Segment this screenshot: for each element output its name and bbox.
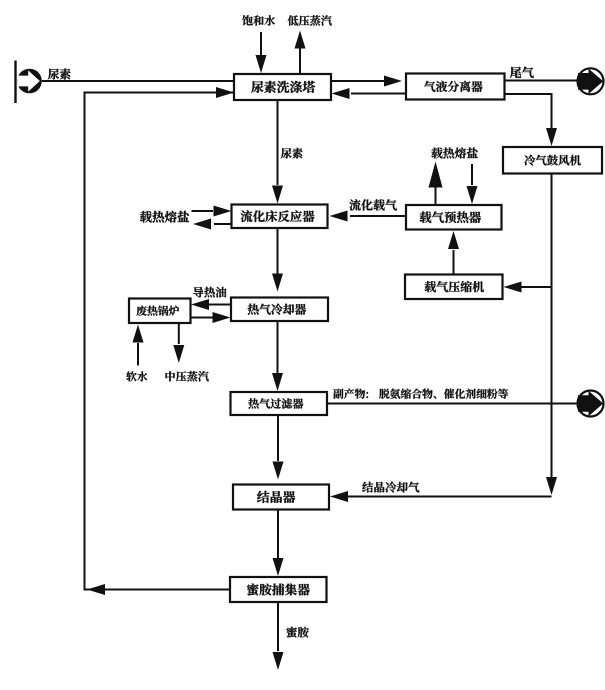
flow terminal circle (tail gas out)	[578, 68, 604, 94]
arrowhead: recycle at collector outlet corner	[87, 584, 105, 595]
arrowhead: soft water up into boiler	[133, 325, 144, 343]
arrowhead: into preheater from compressor	[448, 231, 459, 249]
label: 饱和水 (saturated water)	[242, 15, 275, 25]
arrowhead: urea into reactor	[272, 186, 283, 204]
label: 载热熔盐 (molten salt, reactor)	[140, 211, 189, 223]
wire: molten salt stub out of reactor	[214, 223, 232, 225]
wire: cooler to hot gas filter	[277, 321, 279, 373]
arrowhead: oil into cooler	[213, 312, 231, 323]
label: 软水 (soft water)	[126, 371, 147, 381]
arrowhead: melamine product down	[273, 652, 284, 670]
label: 流化载气 (fluidizing carrier gas)	[349, 199, 396, 210]
arrowhead: fluidizing gas into reactor	[330, 211, 348, 222]
wire: soft water into boiler	[137, 343, 139, 366]
label: 载热熔盐 (molten salt, preheater)	[431, 147, 477, 158]
source terminal bar (urea feed)	[14, 61, 16, 104]
box: 尿素洗涤塔 (urea scrubber)	[234, 74, 331, 100]
arrowhead: molten salt into reactor	[214, 206, 232, 217]
wire: melamine product out	[277, 602, 279, 651]
wire: branch to compressor	[521, 286, 552, 288]
arrowhead: molten salt down into preheater	[467, 186, 478, 204]
label: 低压蒸汽 (LP steam)	[288, 15, 332, 25]
box: 载气预热器 (carrier gas preheater)	[406, 205, 502, 230]
arrowhead: into hot gas filter	[272, 373, 283, 391]
wire: saturated water into scrubber	[260, 32, 262, 56]
arrowhead: riser down to crystallizer line	[546, 477, 557, 495]
wire: crystallizing cooling gas line	[348, 496, 552, 498]
arrowhead: saturated water down	[256, 55, 267, 73]
label: 副产物: 脱氨缩合物、催化剂细粉等 (by-products)	[333, 389, 508, 399]
wire: fluidizing gas from preheater to reactor	[350, 215, 406, 217]
wire: urea feed from source to scrubber	[42, 80, 234, 82]
wire: MP steam out of boiler	[178, 323, 180, 344]
arrowhead: recycle into scrubber	[216, 87, 234, 98]
label: 导热油 (heat transfer oil)	[193, 287, 226, 298]
box: 蜜胺捕集器 (melamine collector)	[230, 577, 327, 602]
arrowhead: oil into boiler	[191, 299, 209, 310]
arrowhead: into hot gas cooler	[272, 274, 283, 292]
wire: molten salt into preheater (down stub)	[471, 164, 473, 185]
box: 流化床反应器 (fluidized bed reactor)	[232, 205, 328, 229]
arrowhead: into blower	[546, 128, 557, 146]
arrowhead: into separator	[384, 76, 402, 87]
box: 废热锅炉 (waste heat boiler)	[129, 299, 191, 324]
arrowhead: molten salt out of reactor	[193, 219, 211, 230]
label: 蜜胺 (melamine)	[286, 627, 308, 638]
box: 冷气鼓风机 (cold gas blower)	[503, 147, 602, 174]
label: 尾气 (tail gas)	[510, 67, 534, 79]
wire: low pressure steam out of scrubber	[299, 48, 301, 74]
arrowhead: into crystallizer	[273, 462, 284, 480]
arrowhead: cooling gas into crystallizer	[330, 491, 348, 502]
wire: oil from boiler to cooler	[191, 317, 214, 319]
wire: by-products line to terminal	[327, 403, 578, 405]
wire: separator to scrubber (return)	[351, 93, 406, 95]
box: 热气过滤器 (hot gas filter)	[231, 392, 328, 415]
arrowhead: into compressor	[504, 282, 522, 293]
arrowhead: return into scrubber	[332, 88, 350, 99]
wire: recycle gas riser (collector to scrubber)	[85, 93, 235, 590]
wire: crystallizer to melamine collector	[277, 510, 279, 559]
wire: reactor to hot gas cooler	[277, 228, 279, 274]
box: 载气压缩机 (carrier gas compressor)	[405, 275, 503, 300]
wire: compressor to preheater	[453, 250, 455, 275]
wire: filter to crystallizer	[277, 415, 279, 461]
wire: molten salt out of preheater (up stub)	[435, 185, 437, 205]
arrowhead: molten salt up	[429, 162, 443, 188]
arrowhead: low pressure steam up	[295, 31, 306, 49]
source circle symbol (urea feed)	[17, 69, 42, 94]
wire: tail gas to terminal	[505, 80, 579, 82]
box: 气液分离器 (gas-liquid separator)	[406, 74, 505, 100]
wire: oil from cooler to boiler	[209, 304, 231, 306]
wire: molten salt stub into reactor	[192, 210, 214, 212]
label: 中压蒸汽 (MP steam)	[165, 371, 208, 381]
wire: separator to cold gas blower	[505, 94, 552, 128]
label: 尿素 (urea, feed)	[48, 68, 71, 79]
arrowhead: MP steam down	[173, 345, 184, 363]
label: 结晶冷却气 (crystal cooling gas)	[362, 482, 419, 493]
wire: blower discharge riser	[551, 174, 553, 478]
box: 热气冷却器 (hot gas cooler)	[231, 298, 328, 322]
arrowhead: into melamine collector	[273, 558, 284, 576]
flow terminal circle (by-products out)	[578, 391, 604, 417]
wire: urea from scrubber to reactor	[277, 100, 279, 185]
wire: scrubber to separator (top)	[331, 80, 384, 82]
label: 尿素 (urea, to reactor)	[281, 148, 303, 159]
box: 结晶器 (crystallizer)	[233, 485, 329, 510]
